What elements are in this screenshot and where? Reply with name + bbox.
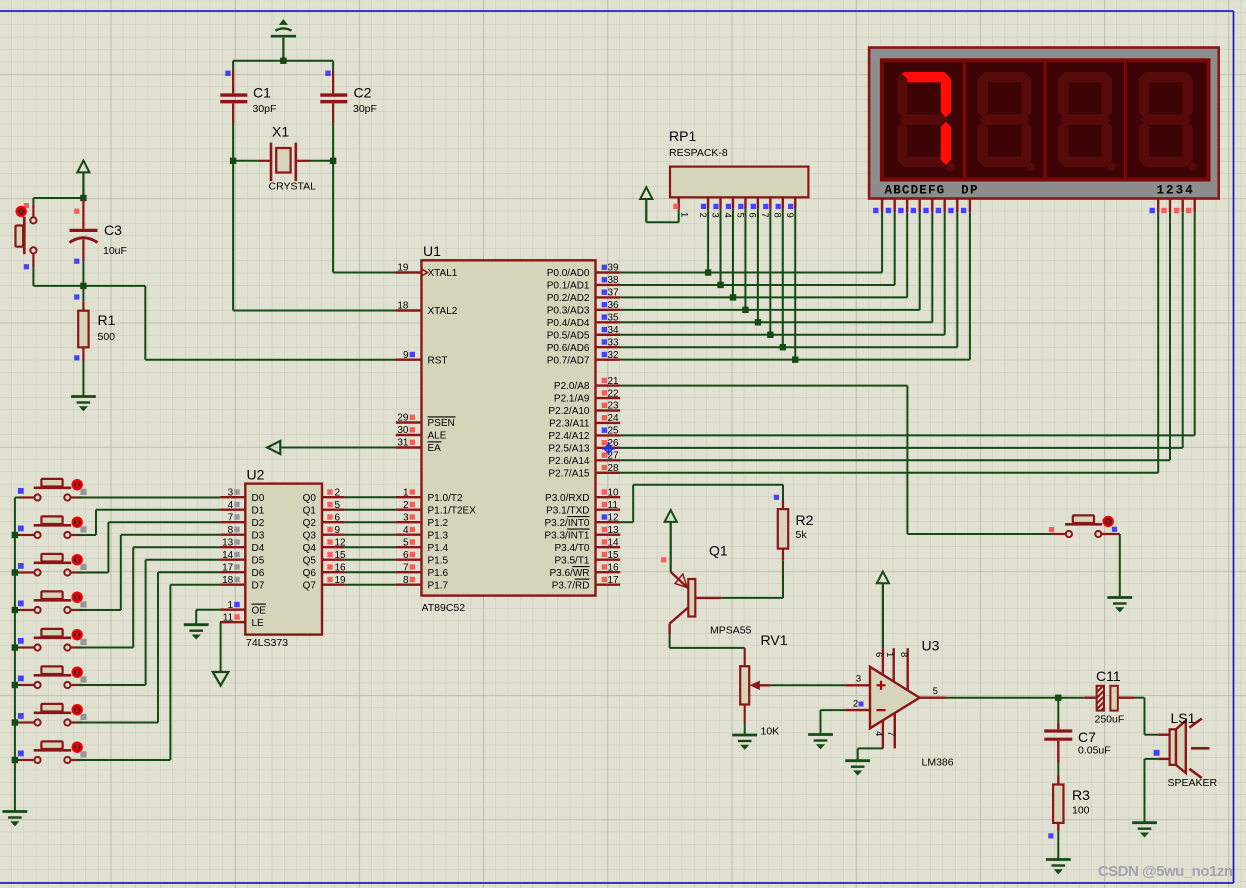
svg-text:18: 18 xyxy=(222,575,234,586)
junction rail xyxy=(12,719,18,725)
svg-text:4: 4 xyxy=(228,500,234,511)
svg-text:4: 4 xyxy=(1185,183,1193,197)
junction rail xyxy=(12,644,18,650)
wire RST net xyxy=(83,286,396,360)
svg-text:RP1: RP1 xyxy=(669,128,696,144)
svg-text:P: P xyxy=(970,183,978,197)
wire Q4 to P1.4 xyxy=(344,546,395,548)
svg-text:D: D xyxy=(911,183,919,197)
svg-text:38: 38 xyxy=(608,275,620,286)
wire P0.1 net xyxy=(620,209,895,288)
wire reset top node xyxy=(33,197,83,199)
svg-text:C11: C11 xyxy=(1096,668,1121,684)
svg-text:22: 22 xyxy=(608,388,620,399)
svg-text:P2.5/A13: P2.5/A13 xyxy=(548,443,590,454)
svg-text:P3.1/TXD: P3.1/TXD xyxy=(546,505,589,516)
svg-text:39: 39 xyxy=(608,263,620,274)
wire P2.4 to digit pin 1 xyxy=(620,212,1194,435)
svg-text:D: D xyxy=(961,183,969,197)
svg-text:C7: C7 xyxy=(1078,729,1096,745)
pushbutton key5 xyxy=(15,629,87,651)
svg-text:P2.4/A12: P2.4/A12 xyxy=(548,431,590,442)
svg-text:P0.1/AD1: P0.1/AD1 xyxy=(547,281,590,292)
wire C2 branch to XTAL1 xyxy=(333,161,396,273)
svg-text:35: 35 xyxy=(608,313,620,324)
capacitor C7 (0.05uF) xyxy=(1044,698,1110,764)
junction rail xyxy=(12,757,18,763)
junction crystal-left xyxy=(230,158,236,164)
wire C1 to crystal row xyxy=(232,123,234,160)
wire OE to ground xyxy=(196,610,220,624)
speaker LS1 xyxy=(1154,710,1218,789)
svg-text:9: 9 xyxy=(335,525,341,536)
svg-text:C: C xyxy=(902,183,910,197)
svg-text:R1: R1 xyxy=(98,312,116,328)
svg-text:D3: D3 xyxy=(252,530,265,541)
svg-text:P3.3/INT1: P3.3/INT1 xyxy=(544,530,589,541)
wire key7 to D6 xyxy=(77,572,220,722)
svg-text:RST: RST xyxy=(428,355,448,366)
wire Q6 to P1.6 xyxy=(344,571,395,573)
svg-text:P1.1/T2EX: P1.1/T2EX xyxy=(428,505,477,516)
potentiometer RV1 (10K) xyxy=(740,632,787,738)
svg-text:1: 1 xyxy=(1156,183,1164,197)
svg-text:P2.3/A11: P2.3/A11 xyxy=(549,419,590,430)
wire P2.0 to key (right button) xyxy=(620,386,1051,534)
pushbutton (reset) xyxy=(16,198,37,286)
svg-text:X1: X1 xyxy=(272,124,289,140)
transistor Q1 MPSA55 (PNP) xyxy=(661,543,751,648)
wire P0.0 net xyxy=(620,209,882,276)
svg-text:D5: D5 xyxy=(252,555,265,566)
resistor pack RP1 RESPACK-8 xyxy=(669,128,808,218)
svg-text:2: 2 xyxy=(403,500,409,511)
ground (top, above C1/C2) xyxy=(271,20,296,61)
svg-text:MPSA55: MPSA55 xyxy=(710,625,752,637)
junction reset top xyxy=(80,195,86,201)
svg-text:R3: R3 xyxy=(1072,787,1090,803)
svg-text:D6: D6 xyxy=(252,568,265,579)
pushbutton key7 xyxy=(15,704,87,726)
wire LE to ground arrow xyxy=(220,622,222,672)
svg-text:P1.5: P1.5 xyxy=(428,555,449,566)
svg-text:P2.6/A14: P2.6/A14 xyxy=(548,456,590,467)
wire P2.5 to digit pin 2 xyxy=(620,212,1182,448)
svg-text:AT89C52: AT89C52 xyxy=(422,602,466,614)
svg-text:P3.2/INT0: P3.2/INT0 xyxy=(544,518,589,529)
svg-text:3: 3 xyxy=(228,487,234,498)
svg-text:7: 7 xyxy=(885,731,896,736)
wire Q1 collector to RV1 xyxy=(670,647,745,649)
svg-text:P1.4: P1.4 xyxy=(428,543,449,554)
svg-text:Q6: Q6 xyxy=(303,568,317,579)
ground (U3 pin2) xyxy=(808,735,833,749)
svg-text:19: 19 xyxy=(397,263,409,274)
svg-text:P0.0/AD0: P0.0/AD0 xyxy=(547,268,590,279)
svg-text:10uF: 10uF xyxy=(103,245,127,257)
svg-text:5: 5 xyxy=(933,686,938,697)
pushbutton key3 xyxy=(15,554,87,576)
wire Q3 to P1.3 xyxy=(344,534,395,536)
svg-text:U3: U3 xyxy=(922,638,940,654)
svg-text:C3: C3 xyxy=(104,222,122,238)
svg-text:8: 8 xyxy=(403,575,409,586)
svg-text:33: 33 xyxy=(608,337,620,348)
svg-text:1: 1 xyxy=(679,212,690,217)
svg-text:P1.7: P1.7 xyxy=(428,580,449,591)
svg-text:2: 2 xyxy=(335,487,341,498)
power (VCC arrow at RP1 pin1) xyxy=(640,187,679,222)
ground (below R3) xyxy=(1046,860,1071,874)
svg-text:XTAL1: XTAL1 xyxy=(428,268,458,279)
watermark xyxy=(1098,863,1233,880)
svg-text:500: 500 xyxy=(98,331,116,343)
svg-text:P0.7/AD7: P0.7/AD7 xyxy=(547,355,590,366)
svg-text:16: 16 xyxy=(608,562,620,573)
svg-text:OE: OE xyxy=(252,605,267,616)
svg-text:21: 21 xyxy=(608,376,620,387)
wire EA to power arrow xyxy=(267,441,396,454)
svg-text:74LS373: 74LS373 xyxy=(246,637,288,649)
svg-text:9: 9 xyxy=(403,350,409,361)
ground (key rail) xyxy=(3,812,28,826)
crystal X1 xyxy=(233,124,333,193)
svg-text:2: 2 xyxy=(697,213,708,218)
svg-text:P3.0/RXD: P3.0/RXD xyxy=(545,493,589,504)
svg-text:P3.7/RD: P3.7/RD xyxy=(552,580,590,591)
svg-text:Q5: Q5 xyxy=(303,555,317,566)
svg-text:A: A xyxy=(885,183,893,197)
svg-text:30: 30 xyxy=(397,425,409,436)
svg-text:RESPACK-8: RESPACK-8 xyxy=(669,147,728,159)
svg-text:15: 15 xyxy=(608,550,620,561)
pushbutton key1 xyxy=(15,479,87,501)
svg-text:36: 36 xyxy=(608,300,620,311)
wire C1 branch to XTAL2 xyxy=(233,161,396,311)
svg-text:LE: LE xyxy=(252,618,265,629)
wire C1-top to C2-top xyxy=(233,60,333,62)
ground arrow (LE) xyxy=(213,672,229,686)
svg-text:37: 37 xyxy=(608,288,620,299)
svg-text:10: 10 xyxy=(608,487,620,498)
svg-text:3: 3 xyxy=(403,512,409,523)
svg-text:15: 15 xyxy=(335,550,347,561)
svg-text:Q2: Q2 xyxy=(303,518,317,529)
svg-text:Q3: Q3 xyxy=(303,530,317,541)
svg-text:1: 1 xyxy=(228,600,234,611)
svg-text:12: 12 xyxy=(608,512,620,523)
svg-text:19: 19 xyxy=(335,575,347,586)
svg-text:24: 24 xyxy=(608,413,620,424)
svg-text:D2: D2 xyxy=(252,518,265,529)
svg-text:30pF: 30pF xyxy=(253,103,277,115)
svg-text:R2: R2 xyxy=(796,512,814,528)
svg-text:29: 29 xyxy=(397,413,409,424)
svg-text:11: 11 xyxy=(608,500,619,511)
svg-text:PSEN: PSEN xyxy=(428,418,455,429)
junction output node xyxy=(1055,695,1061,701)
capacitor C2 xyxy=(320,61,377,124)
junction rail xyxy=(12,569,18,575)
svg-text:P0.5/AD5: P0.5/AD5 xyxy=(547,330,590,341)
svg-text:P3.5/T1: P3.5/T1 xyxy=(554,555,589,566)
wire P0.2 net xyxy=(620,209,907,301)
ground (below R1) xyxy=(71,397,96,411)
svg-text:0.05uF: 0.05uF xyxy=(1078,745,1111,757)
mouse cursor crosshair xyxy=(602,442,615,455)
svg-text:14: 14 xyxy=(608,537,620,548)
4-digit 7-segment display xyxy=(869,48,1219,214)
svg-text:6: 6 xyxy=(873,652,884,657)
svg-text:P1.6: P1.6 xyxy=(428,568,449,579)
junction crystal-right xyxy=(330,158,336,164)
svg-text:U1: U1 xyxy=(423,243,441,259)
power (VCC arrow at U3 pin6) xyxy=(877,572,889,649)
svg-text:12: 12 xyxy=(335,537,347,548)
ground (U3 pin4) xyxy=(845,761,870,775)
wire C2 to crystal row xyxy=(332,123,334,160)
wire key3 to D2 xyxy=(77,522,220,572)
svg-text:4: 4 xyxy=(722,213,733,218)
svg-text:LM386: LM386 xyxy=(922,757,954,769)
svg-text:P1.3: P1.3 xyxy=(428,530,449,541)
svg-text:P0.6/AD6: P0.6/AD6 xyxy=(547,343,590,354)
MCU U1 AT89C52 xyxy=(396,243,620,614)
svg-text:Q4: Q4 xyxy=(303,543,317,554)
power (VCC arrow at Q1 emitter) xyxy=(665,510,677,572)
svg-text:30pF: 30pF xyxy=(353,103,377,115)
svg-text:SPEAKER: SPEAKER xyxy=(1168,777,1218,789)
svg-text:LS1: LS1 xyxy=(1171,710,1196,726)
wire key2 to D1 xyxy=(77,510,220,535)
svg-text:250uF: 250uF xyxy=(1095,714,1125,726)
svg-text:D7: D7 xyxy=(252,580,265,591)
svg-text:2: 2 xyxy=(853,699,858,710)
svg-text:Q7: Q7 xyxy=(303,580,317,591)
pushbutton key2 xyxy=(15,516,87,538)
svg-text:17: 17 xyxy=(608,575,620,586)
svg-text:ALE: ALE xyxy=(428,431,447,442)
svg-text:4: 4 xyxy=(403,525,409,536)
svg-text:CRYSTAL: CRYSTAL xyxy=(269,181,317,193)
svg-text:100: 100 xyxy=(1072,805,1090,817)
wire key8 to D7 xyxy=(77,585,220,760)
svg-text:7: 7 xyxy=(759,213,770,218)
resistor R1 (500) xyxy=(74,286,115,396)
svg-text:P2.7/A15: P2.7/A15 xyxy=(548,468,590,479)
ground (speaker) xyxy=(1132,823,1157,837)
svg-text:7: 7 xyxy=(403,562,409,573)
wire R2 to Q1 base xyxy=(721,561,783,598)
svg-text:16: 16 xyxy=(335,562,347,573)
svg-text:5k: 5k xyxy=(796,529,808,541)
svg-text:6: 6 xyxy=(403,550,409,561)
pushbutton key4 xyxy=(15,591,87,613)
svg-text:P2.1/A9: P2.1/A9 xyxy=(554,394,590,405)
pushbutton key6 xyxy=(15,666,87,688)
power (VCC arrow above reset node) xyxy=(77,161,89,198)
svg-text:C1: C1 xyxy=(253,85,271,101)
svg-text:14: 14 xyxy=(222,550,234,561)
svg-text:D1: D1 xyxy=(252,505,265,516)
svg-text:D0: D0 xyxy=(252,493,265,504)
wire P0.7 net xyxy=(620,209,970,363)
wire Q2 to P1.2 xyxy=(344,521,395,523)
capacitor C3 (10uF) xyxy=(70,200,127,286)
svg-text:EA: EA xyxy=(428,443,442,454)
op-amp U3 LM386 xyxy=(845,638,953,769)
svg-text:D4: D4 xyxy=(252,543,265,554)
resistor R3 (100) xyxy=(1048,763,1090,858)
svg-text:8: 8 xyxy=(772,213,783,218)
wire P2.7 to digit pin 4 xyxy=(620,212,1158,473)
svg-text:P2.0/A8: P2.0/A8 xyxy=(554,381,590,392)
svg-text:6: 6 xyxy=(335,512,341,523)
svg-text:34: 34 xyxy=(608,325,620,336)
svg-text:18: 18 xyxy=(397,301,409,312)
pushbutton (right, P2.0 key) xyxy=(1049,515,1120,596)
svg-text:32: 32 xyxy=(608,350,620,361)
svg-text:8: 8 xyxy=(228,525,234,536)
latch U2 74LS373 xyxy=(220,467,346,650)
svg-text:13: 13 xyxy=(222,537,234,548)
svg-text:E: E xyxy=(919,183,927,197)
resistor R2 (5k) xyxy=(774,495,814,561)
svg-text:28: 28 xyxy=(608,463,620,474)
ground (right button) xyxy=(1107,598,1132,612)
wire P0.3 net xyxy=(620,209,920,313)
svg-text:RV1: RV1 xyxy=(761,632,788,648)
svg-text:CSDN @5wu_no1zn: CSDN @5wu_no1zn xyxy=(1098,863,1233,880)
wire RV1 wiper to U3 pin3 xyxy=(770,684,846,686)
wire U3 pin2 to ground xyxy=(821,710,846,733)
svg-text:U2: U2 xyxy=(247,467,265,483)
wire U3 out to C11/C7 xyxy=(946,697,1085,699)
svg-text:13: 13 xyxy=(608,525,620,536)
wire key5 to D4 xyxy=(77,547,220,647)
svg-text:3: 3 xyxy=(856,674,861,685)
junction rail xyxy=(12,607,18,613)
svg-text:25: 25 xyxy=(608,426,620,437)
svg-text:Q0: Q0 xyxy=(303,493,317,504)
svg-text:2: 2 xyxy=(1166,183,1174,197)
svg-text:6: 6 xyxy=(747,213,758,218)
wire speaker to ground xyxy=(1145,759,1159,822)
wire P0.4 net xyxy=(620,209,932,326)
wire Q0 to P1.0 xyxy=(344,496,395,498)
junction reset bottom xyxy=(80,283,86,289)
svg-text:23: 23 xyxy=(608,401,620,412)
svg-text:8: 8 xyxy=(898,652,909,657)
svg-text:P0.2/AD2: P0.2/AD2 xyxy=(547,293,590,304)
wire Q7 to P1.7 xyxy=(344,584,395,586)
svg-text:Q1: Q1 xyxy=(303,505,317,516)
svg-text:11: 11 xyxy=(223,612,234,623)
junction rail xyxy=(12,532,18,538)
svg-text:P0.4/AD4: P0.4/AD4 xyxy=(547,318,590,329)
wire P0.5 net xyxy=(620,209,945,338)
pushbutton key8 xyxy=(15,741,87,763)
svg-text:3: 3 xyxy=(1176,183,1184,197)
svg-text:3: 3 xyxy=(709,213,720,218)
svg-text:1: 1 xyxy=(403,487,409,498)
junction rail xyxy=(12,682,18,688)
svg-text:31: 31 xyxy=(397,438,409,449)
svg-text:P1.0/T2: P1.0/T2 xyxy=(428,493,463,504)
wire P0.6 net xyxy=(620,209,957,351)
capacitor C11 (250uF, polarized) xyxy=(1084,668,1134,726)
svg-text:5: 5 xyxy=(335,500,341,511)
svg-text:5: 5 xyxy=(403,537,409,548)
svg-text:5: 5 xyxy=(734,213,745,218)
wire Q1 to P1.1 xyxy=(344,509,395,511)
svg-text:P0.3/AD3: P0.3/AD3 xyxy=(547,305,590,316)
wire C11 to speaker xyxy=(1134,698,1158,735)
svg-text:1: 1 xyxy=(884,652,895,657)
svg-text:F: F xyxy=(928,183,936,197)
svg-text:P3.6/WR: P3.6/WR xyxy=(549,568,589,579)
svg-text:17: 17 xyxy=(222,562,234,573)
svg-text:4: 4 xyxy=(873,731,884,736)
wire U3 pin4 to ground xyxy=(858,748,883,759)
wire reset bottom node xyxy=(33,285,83,287)
svg-text:P3.4/T0: P3.4/T0 xyxy=(554,543,589,554)
svg-text:G: G xyxy=(937,183,945,197)
svg-text:C2: C2 xyxy=(354,85,372,101)
wire key4 to D3 xyxy=(77,535,220,610)
svg-text:Q1: Q1 xyxy=(709,543,728,559)
junction at ground stem xyxy=(280,58,286,64)
capacitor C1 xyxy=(220,61,276,124)
wire P3.2/INT0 to R2 xyxy=(620,485,783,523)
svg-text:XTAL2: XTAL2 xyxy=(428,306,458,317)
svg-text:P1.2: P1.2 xyxy=(428,518,449,529)
svg-text:P2.2/A10: P2.2/A10 xyxy=(548,406,590,417)
wire Q5 to P1.5 xyxy=(344,559,395,561)
svg-text:9: 9 xyxy=(784,213,795,218)
wire key1 to D0 xyxy=(77,497,220,499)
ground (U2 OE) xyxy=(184,625,209,639)
svg-text:7: 7 xyxy=(228,512,234,523)
wire P2.6 to digit pin 3 xyxy=(620,212,1170,460)
svg-text:B: B xyxy=(893,183,901,197)
key array common rail xyxy=(14,498,16,811)
ground (below RV1) xyxy=(732,735,757,749)
svg-text:10K: 10K xyxy=(761,726,780,738)
wire key6 to D5 xyxy=(77,560,220,685)
